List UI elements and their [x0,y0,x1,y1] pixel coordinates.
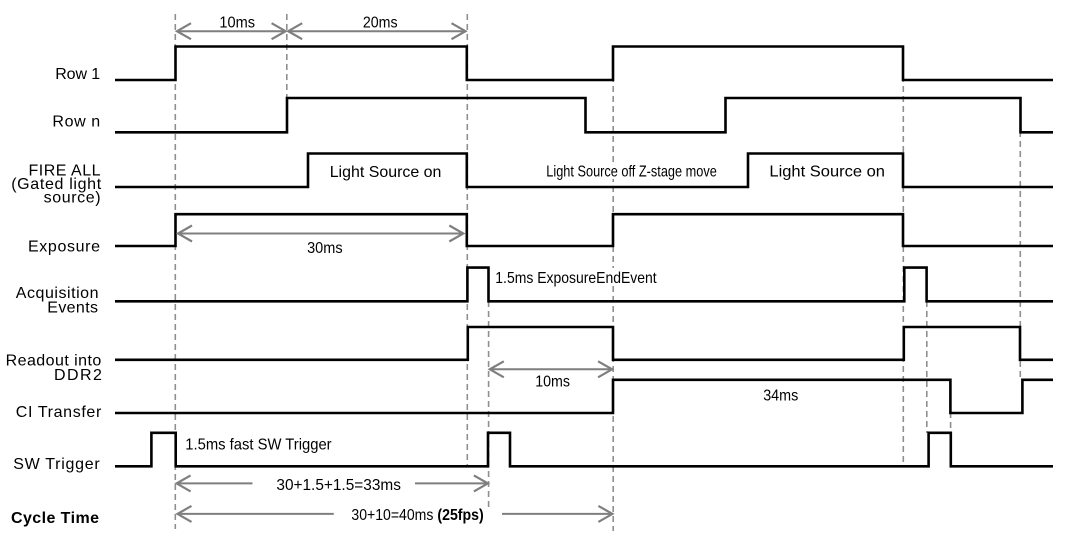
dashed gridline t8 x=1020 [1019,131,1021,379]
svg-text:30ms: 30ms [307,240,343,257]
svg-text:10ms: 10ms [219,15,255,32]
arrow 30ms exposure [178,226,463,242]
svg-text:10ms: 10ms [535,374,570,391]
dashed gridline t3 x=488 [488,301,490,508]
svg-text:30+1.5+1.5=33ms: 30+1.5+1.5=33ms [276,477,401,494]
dashed gridline t7 x=950 [950,412,952,434]
svg-text:Exposure: Exposure [28,239,100,256]
svg-text:34ms: 34ms [763,388,798,405]
waveform CI Transfer [115,380,1053,413]
svg-text:CI Transfer: CI Transfer [16,404,102,421]
dashed gridline t6 x=927 [926,301,928,433]
svg-text:20ms: 20ms [363,15,398,32]
svg-text:SW Trigger: SW Trigger [13,456,100,473]
svg-text:Row 1: Row 1 [55,66,100,83]
arrow 10ms top [177,23,286,39]
svg-text:Light Source on: Light Source on [769,164,885,181]
svg-text:1.5ms ExposureEndEvent: 1.5ms ExposureEndEvent [495,270,657,287]
svg-text:DDR2: DDR2 [54,367,102,384]
svg-text:source): source) [44,190,101,207]
waveform Exposure [115,214,1053,246]
dashed gridline t0 x=175 [174,14,176,529]
label Light Source off Z-stage move [543,162,720,181]
arrow 10ms readout [490,361,612,377]
waveform Row n [115,98,1053,132]
svg-text:Events: Events [47,300,98,317]
waveform Readout into DDR2 [115,327,1053,360]
dashed gridline t4 x=613 [612,46,614,531]
arrow 20ms top [288,23,465,39]
dashed gridline t2 x=467 [466,14,468,466]
svg-text:30+10=40ms(25fps): 30+10=40ms(25fps) [351,507,483,524]
dashed gridline t1 x=287 [286,14,288,97]
arrow 33ms cycle [177,475,488,491]
waveform Row 1 [115,47,1053,81]
arrow 40ms cycle [178,506,613,522]
svg-text:Light Source off Z-stage move: Light Source off Z-stage move [546,164,717,181]
waveform FIRE ALL [115,154,1053,188]
svg-text:Light Source on: Light Source on [330,164,442,181]
waveform SW Trigger [115,433,1053,467]
label 1.5ms ExposureEndEvent [493,268,659,287]
waveform Acquisition Events [115,268,1053,302]
dashed gridline t5 x=903 [902,46,904,466]
svg-text:1.5ms fast SW Trigger: 1.5ms fast SW Trigger [185,437,332,454]
svg-text:Cycle Time: Cycle Time [11,510,99,527]
svg-text:Row n: Row n [52,113,100,130]
